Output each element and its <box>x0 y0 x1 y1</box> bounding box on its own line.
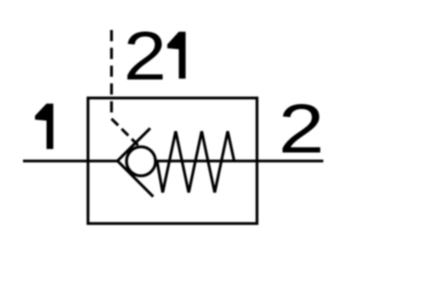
svg-text:2: 2 <box>124 17 167 94</box>
svg-text:2: 2 <box>278 90 324 167</box>
